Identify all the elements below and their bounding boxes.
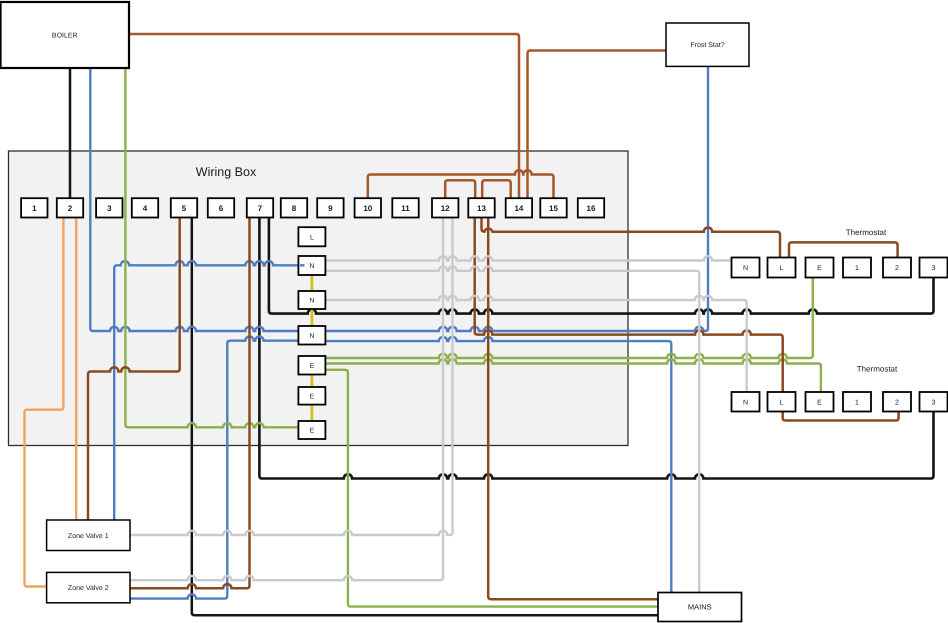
wire terminal 12 gray to zone valve 1 <box>130 218 453 536</box>
svg-text:1: 1 <box>855 399 859 406</box>
wire link N2-N3 <box>310 309 313 326</box>
svg-text:8: 8 <box>292 204 297 213</box>
wire thermostat 2 L to pin 2 jumper <box>783 412 899 421</box>
wire E1 green to thermostat 1 E <box>325 278 812 359</box>
wire link E1-E2 <box>310 375 313 388</box>
wire boiler green to E3 <box>125 68 298 427</box>
svg-text:N: N <box>309 333 314 340</box>
zone valve 1 <box>47 520 130 551</box>
wire terminal 2 orange to zone valve 1 <box>75 218 77 521</box>
svg-text:N: N <box>743 265 748 272</box>
wire terminal 7 black to thermostat 2 pin 3 <box>259 218 933 479</box>
terminal 14 <box>506 198 532 217</box>
wire N1 blue to zone valve 1 <box>114 261 298 520</box>
wire N3 blue to zone valve 2 <box>130 337 298 599</box>
wire terminal 5 brown to zone valve 1 <box>88 218 180 521</box>
wire terminal 13 brown to MAINS <box>488 218 658 600</box>
svg-text:E: E <box>817 265 822 272</box>
wire N1 gray to MAINS <box>325 267 699 593</box>
terminal N3 <box>298 326 325 345</box>
thermostat 2 pin 3 <box>920 392 948 412</box>
svg-text:16: 16 <box>587 204 596 213</box>
wire thermostat 1 L to pin 2 jumper <box>789 242 898 257</box>
svg-text:L: L <box>780 399 784 406</box>
thermostat 1 pin 2 <box>883 258 911 278</box>
svg-text:3: 3 <box>107 204 112 213</box>
terminal 11 <box>392 198 418 217</box>
svg-text:2: 2 <box>895 265 899 272</box>
wire E1 green to thermostat 2 E <box>325 359 821 392</box>
wire terminal 2 orange to zone valve 2 <box>25 218 64 587</box>
thermostat 2 pin L <box>768 392 796 412</box>
boiler <box>1 2 130 68</box>
terminal E3 <box>298 421 325 439</box>
wiring box enclosure <box>9 151 629 446</box>
thermostat 2 pin N <box>732 392 760 412</box>
terminal L <box>298 227 325 246</box>
zone valve 2 <box>47 572 130 602</box>
svg-text:Frost Stat?: Frost Stat? <box>690 42 724 49</box>
thermostat 2 pin 2 <box>883 392 911 412</box>
svg-text:E: E <box>310 393 315 400</box>
wire boiler black to terminal 2 <box>69 68 72 198</box>
wire terminal 12 brown to terminal 13 <box>445 180 475 198</box>
svg-text:13: 13 <box>477 204 486 213</box>
wire terminal 10 brown to terminal 15 <box>368 170 554 198</box>
svg-text:BOILER: BOILER <box>52 33 78 40</box>
wire N3 blue to MAINS <box>325 337 671 593</box>
wire N3 blue to frost stat <box>325 66 708 331</box>
terminal 8 <box>281 198 307 217</box>
terminal 10 <box>355 198 381 217</box>
terminal 4 <box>132 198 158 217</box>
wire link E2-E3 <box>310 405 313 421</box>
thermostat 1 pin L <box>768 258 796 278</box>
frost stat <box>666 23 749 66</box>
thermostat 2 pin E <box>806 392 834 412</box>
wire boiler brown to terminal 14 <box>129 34 519 198</box>
terminal 2 <box>57 198 83 217</box>
wire N1 gray to thermostat 1 N <box>325 256 731 260</box>
terminal 1 <box>21 198 47 217</box>
terminal E2 <box>298 387 325 405</box>
thermostat 2 pin 1 <box>843 392 871 412</box>
svg-text:7: 7 <box>258 204 263 213</box>
wire N1 blue stub <box>300 264 305 266</box>
wire terminal 13 brown to terminal 14 <box>482 180 511 198</box>
wire terminal 13 brown to thermostat 1 L <box>482 218 781 258</box>
svg-text:L: L <box>780 265 784 272</box>
terminal 6 <box>208 198 234 217</box>
terminal N2 <box>298 291 325 309</box>
svg-text:Thermostat: Thermostat <box>857 365 898 374</box>
terminal 13 <box>468 198 494 217</box>
terminal 5 <box>171 198 197 217</box>
svg-text:4: 4 <box>143 204 148 213</box>
svg-text:E: E <box>310 363 315 370</box>
svg-text:3: 3 <box>932 399 936 406</box>
wire terminal 12 gray to zone valve 2 <box>130 218 443 581</box>
thermostat 1 pin 3 <box>920 258 948 278</box>
terminal 9 <box>317 198 343 217</box>
mains supply <box>658 593 742 622</box>
svg-text:9: 9 <box>328 204 333 213</box>
svg-text:Wiring Box: Wiring Box <box>196 165 257 179</box>
svg-text:N: N <box>309 298 314 305</box>
wire terminal 7 brown to zone valve 2 <box>130 218 250 589</box>
terminal 16 <box>578 198 604 217</box>
thermostat 1 pin N <box>732 258 760 278</box>
svg-text:E: E <box>310 428 315 435</box>
svg-text:6: 6 <box>219 204 224 213</box>
svg-text:5: 5 <box>182 204 187 213</box>
svg-text:E: E <box>817 399 822 406</box>
svg-text:Thermostat: Thermostat <box>846 228 887 237</box>
terminal N1 <box>298 256 325 275</box>
svg-text:2: 2 <box>895 399 899 406</box>
terminal 3 <box>96 198 122 217</box>
svg-text:1: 1 <box>855 265 859 272</box>
terminal 7 <box>247 198 273 217</box>
terminal E1 <box>298 356 325 375</box>
wire N2 gray to thermostat 2 N <box>325 296 746 392</box>
svg-text:3: 3 <box>932 265 936 272</box>
thermostat 1 pin E <box>806 258 834 278</box>
svg-text:15: 15 <box>549 204 558 213</box>
svg-text:11: 11 <box>401 204 410 213</box>
svg-text:Zone Valve 1: Zone Valve 1 <box>68 532 109 540</box>
svg-text:1: 1 <box>32 204 37 213</box>
wire terminal 7 black to thermostat 1 pin 3 <box>269 218 934 314</box>
terminal 15 <box>540 198 566 217</box>
svg-text:2: 2 <box>68 204 73 213</box>
wire E1 green to MAINS <box>325 370 658 607</box>
wire boiler blue to N3 <box>90 68 298 331</box>
wire terminal 13 brown to thermostat 2 L <box>475 218 783 393</box>
svg-text:10: 10 <box>363 204 372 213</box>
svg-text:12: 12 <box>441 204 450 213</box>
svg-text:Zone Valve 2: Zone Valve 2 <box>68 584 109 592</box>
svg-text:MAINS: MAINS <box>688 603 712 612</box>
svg-text:L: L <box>310 234 314 241</box>
thermostat 1 pin 1 <box>843 258 871 278</box>
terminal 12 <box>432 198 458 217</box>
svg-text:14: 14 <box>514 204 523 213</box>
svg-text:N: N <box>309 263 314 270</box>
wire terminal 5 black to MAINS <box>192 218 658 616</box>
svg-text:N: N <box>743 399 748 406</box>
wire frost stat brown to terminal 14 <box>528 51 667 199</box>
wire link N1-N2 <box>310 275 313 291</box>
